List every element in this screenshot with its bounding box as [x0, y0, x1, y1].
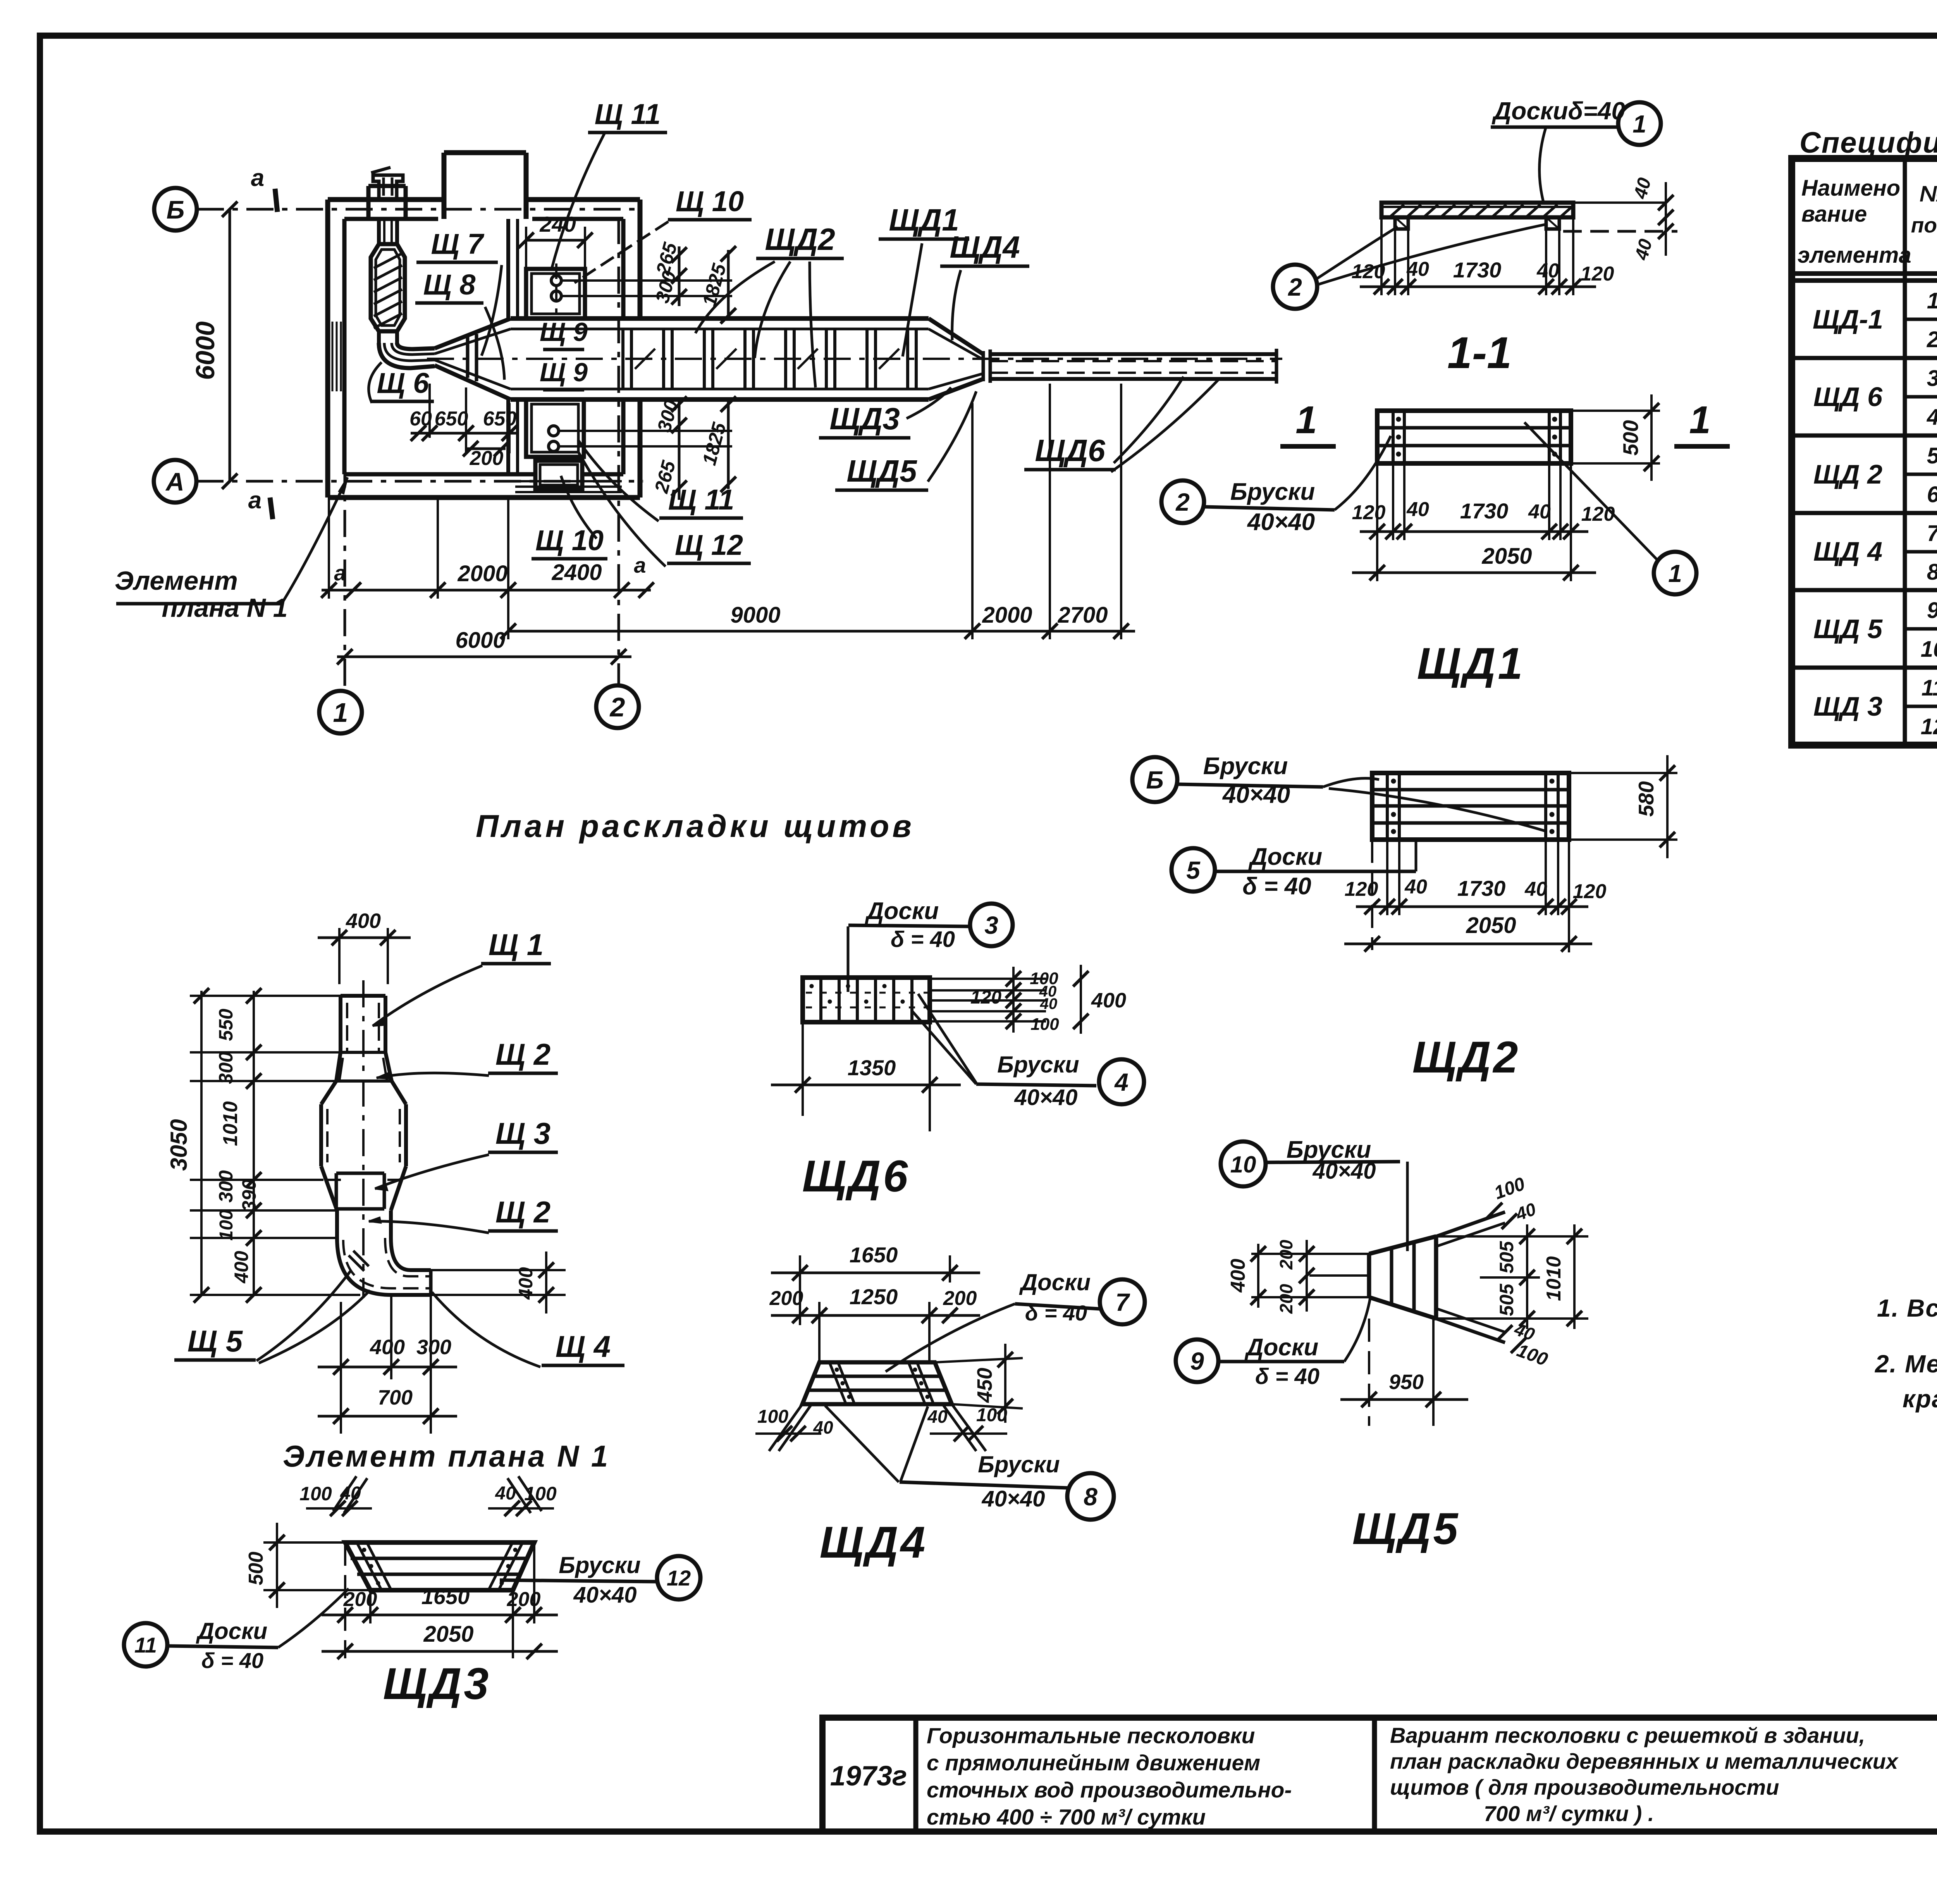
svg-text:450: 450	[973, 1368, 996, 1403]
svg-text:950: 950	[1389, 1370, 1424, 1394]
bottle: right dim 400 at outlet	[431, 1269, 566, 1271]
svg-text:ЩД-1: ЩД-1	[1813, 304, 1883, 334]
shd5: funnel body	[1367, 1254, 1371, 1297]
svg-text:6000: 6000	[191, 321, 220, 380]
plan: building top wall	[328, 197, 444, 202]
svg-text:9: 9	[1927, 598, 1937, 623]
svg-text:40×40: 40×40	[982, 1486, 1045, 1511]
svg-text:390: 390	[238, 1179, 260, 1212]
bottle: center line	[362, 980, 365, 1298]
plan: channel diagonal marks	[635, 349, 655, 369]
sec1-1: left post	[1395, 217, 1408, 229]
svg-text:2000: 2000	[457, 561, 507, 586]
svg-text:3: 3	[984, 911, 998, 939]
svg-text:Щ 9: Щ 9	[540, 317, 588, 347]
plan: vertical dim 6000	[229, 209, 231, 481]
svg-text:40: 40	[1536, 260, 1559, 282]
svg-text:40×40: 40×40	[1247, 509, 1315, 535]
svg-text:δ = 40: δ = 40	[1025, 1301, 1087, 1325]
svg-text:40: 40	[813, 1417, 833, 1437]
svg-text:2050: 2050	[1466, 913, 1516, 938]
svg-text:4: 4	[1114, 1068, 1128, 1096]
svg-text:100: 100	[299, 1483, 332, 1505]
svg-text:2: 2	[1175, 488, 1190, 516]
sec1-1: dashed level line	[1563, 230, 1677, 233]
svg-text:а: а	[248, 487, 261, 514]
shd4: leader to bubble 7	[886, 1304, 1015, 1372]
svg-text:Бруски: Бруски	[1203, 753, 1288, 780]
svg-text:Элемент: Элемент	[115, 566, 238, 596]
shd4: leader to bubble 8	[825, 1406, 899, 1482]
svg-text:700: 700	[378, 1386, 413, 1409]
plan: dims 60 650 650	[411, 432, 519, 435]
svg-text:1: 1	[333, 697, 348, 728]
shd1: dim line 2050	[1352, 572, 1596, 574]
svg-text:300: 300	[215, 1052, 237, 1084]
plan: left wall window hatch	[332, 322, 334, 391]
svg-text:400: 400	[231, 1251, 252, 1284]
svg-text:11: 11	[134, 1633, 157, 1657]
svg-text:1650: 1650	[421, 1584, 470, 1609]
svg-text:ЩД4: ЩД4	[820, 1518, 928, 1567]
plan: building right wall	[638, 200, 643, 318]
plan: axis 2 vertical	[618, 217, 620, 685]
svg-text:300: 300	[215, 1170, 237, 1203]
plan: dims 265/300 upper	[678, 246, 681, 306]
svg-text:1: 1	[1295, 398, 1317, 442]
sec1-1: plank bar with hatch	[1381, 203, 1573, 217]
plan: narrow outlet channel	[990, 352, 1276, 356]
svg-text:Бруски: Бруски	[997, 1052, 1079, 1078]
svg-text:1: 1	[1689, 398, 1711, 442]
plan: dim 1825 lower	[727, 399, 730, 489]
svg-text:650: 650	[435, 408, 468, 430]
svg-text:100: 100	[1030, 1015, 1059, 1034]
bottle: inner shield Щ3 rect	[336, 1172, 384, 1175]
svg-text:Щ 8: Щ 8	[423, 269, 476, 301]
svg-text:а: а	[634, 553, 646, 577]
svg-text:с прямолинейным движением: с прямолинейным движением	[927, 1751, 1260, 1775]
svg-text:ЩД3: ЩД3	[829, 401, 900, 436]
elem1: dim 2050	[322, 1650, 558, 1653]
svg-text:505: 505	[1496, 1241, 1517, 1274]
svg-text:Щ 2: Щ 2	[495, 1037, 550, 1071]
svg-text:стью 400 ÷ 700 м³/ сутки: стью 400 ÷ 700 м³/ сутки	[927, 1805, 1206, 1830]
svg-text:240: 240	[539, 212, 576, 236]
elem1: dims 200/1650/200	[322, 1614, 558, 1617]
plan: right taper	[929, 318, 983, 354]
svg-text:400: 400	[1227, 1259, 1249, 1293]
svg-text:Доски: Доски	[196, 1618, 267, 1644]
spec table row lines	[1792, 356, 1937, 360]
svg-text:Щ 11: Щ 11	[668, 484, 735, 516]
plan: channel rungs	[621, 329, 624, 389]
shd4: bottom-right dims 40/100	[943, 1404, 976, 1451]
shd4: dim 450	[935, 1358, 1023, 1362]
plan: main channel walls	[511, 316, 929, 321]
shd6: leader to bubble 4	[918, 994, 976, 1083]
svg-text:120: 120	[970, 987, 1001, 1008]
svg-text:ЩД1: ЩД1	[1417, 639, 1525, 689]
svg-text:Щ 10: Щ 10	[676, 185, 744, 217]
svg-text:1250: 1250	[850, 1284, 898, 1309]
svg-text:1: 1	[1927, 288, 1937, 313]
plan: lower shield box	[526, 399, 584, 457]
svg-text:9000: 9000	[730, 603, 780, 628]
svg-text:120: 120	[1352, 501, 1386, 524]
title block outer	[822, 1718, 1937, 1832]
svg-text:300: 300	[416, 1336, 451, 1359]
svg-text:плана N 1: плана N 1	[162, 593, 287, 623]
svg-text:2050: 2050	[1481, 544, 1532, 569]
svg-text:Б: Б	[1146, 766, 1163, 794]
svg-text:500: 500	[245, 1552, 267, 1586]
svg-text:Доски: Доски	[1244, 1334, 1318, 1361]
shd4: bottom-left dims 100/40	[769, 1404, 802, 1451]
svg-text:6: 6	[1927, 482, 1937, 507]
svg-text:Доски: Доски	[865, 898, 939, 924]
plan: dims 300/265 lower	[678, 399, 681, 500]
svg-text:2: 2	[1288, 273, 1302, 301]
svg-text:8: 8	[1084, 1483, 1098, 1511]
svg-text:Б: Б	[167, 195, 185, 224]
svg-text:Горизонтальные песколовки: Горизонтальные песколовки	[927, 1723, 1255, 1748]
svg-text:поз.: поз.	[1911, 213, 1937, 237]
svg-text:7: 7	[1927, 521, 1937, 546]
sec1-1: right post	[1546, 217, 1559, 229]
plan: grille unit octagon	[371, 244, 405, 331]
bottle: bottom dims 400 300 700	[340, 1302, 342, 1434]
svg-text:2400: 2400	[551, 560, 602, 585]
svg-text:1730: 1730	[1453, 258, 1502, 282]
svg-text:40: 40	[1404, 876, 1427, 898]
shd4: dim 1650	[771, 1272, 980, 1274]
svg-text:1: 1	[1633, 110, 1646, 138]
shd5: long planks	[1436, 1212, 1505, 1236]
svg-text:120: 120	[1573, 880, 1607, 903]
svg-text:1730: 1730	[1457, 876, 1506, 900]
svg-text:200: 200	[470, 447, 504, 470]
svg-text:550: 550	[215, 1009, 237, 1041]
shd1: dim 500	[1571, 410, 1660, 412]
svg-text:400: 400	[346, 909, 381, 933]
svg-text:2000: 2000	[982, 603, 1032, 628]
svg-text:Бруски: Бруски	[559, 1552, 640, 1578]
shd6: right extension lines	[930, 978, 1046, 980]
svg-text:2700: 2700	[1057, 603, 1108, 628]
svg-text:δ = 40: δ = 40	[1242, 873, 1311, 900]
svg-text:Щ 1: Щ 1	[489, 928, 544, 962]
svg-text:№: №	[1920, 181, 1937, 207]
svg-text:Щ 7: Щ 7	[431, 228, 485, 260]
svg-text:5: 5	[1186, 856, 1201, 884]
bottle: dim 400 top	[338, 928, 341, 984]
svg-text:ЩД 5: ЩД 5	[1813, 614, 1883, 644]
shd5: dim 950	[1368, 1319, 1370, 1426]
plan: upper shield box	[526, 269, 585, 318]
svg-text:ЩД5: ЩД5	[1352, 1504, 1460, 1554]
svg-text:3050: 3050	[166, 1119, 192, 1171]
svg-text:Щ 2: Щ 2	[495, 1195, 550, 1229]
svg-text:а: а	[334, 561, 346, 585]
svg-text:Щ 5: Щ 5	[188, 1324, 243, 1358]
svg-text:План раскладки щитов: План раскладки щитов	[476, 809, 915, 844]
svg-text:2: 2	[1927, 327, 1937, 352]
shd4: trapezoid plank assembly	[802, 1362, 952, 1404]
svg-text:Спецификация лесоматериалов на: Спецификация лесоматериалов на 1 песколо…	[1799, 126, 1937, 159]
svg-text:Щ 12: Щ 12	[675, 529, 743, 561]
svg-text:Бруски: Бруски	[978, 1451, 1060, 1477]
svg-text:Элемент плана N 1: Элемент плана N 1	[283, 1439, 610, 1473]
svg-text:200: 200	[1276, 1239, 1296, 1270]
plan: bottom dim row 3 (6000)	[337, 656, 631, 658]
svg-text:400: 400	[515, 1267, 537, 1300]
svg-text:Бруски: Бруски	[1230, 479, 1315, 505]
svg-text:А: А	[165, 467, 184, 496]
svg-text:Щ 4: Щ 4	[556, 1329, 611, 1363]
bottle: left dims column	[200, 991, 203, 1295]
svg-text:10: 10	[1230, 1152, 1256, 1178]
svg-text:δ = 40: δ = 40	[201, 1648, 263, 1673]
plan: pipe below grille	[377, 331, 381, 343]
shd6: dim 1350	[802, 1022, 804, 1116]
svg-text:краской за 2 раза.: краской за 2 раза.	[1903, 1385, 1937, 1413]
svg-text:вание: вание	[1801, 201, 1867, 227]
svg-text:ЩД 3: ЩД 3	[1813, 691, 1882, 721]
svg-text:100: 100	[976, 1405, 1007, 1425]
spec table outer box	[1792, 158, 1937, 745]
bottle: body	[319, 1104, 323, 1166]
svg-text:Щ 10: Щ 10	[535, 524, 604, 556]
svg-text:ЩД 6: ЩД 6	[1813, 382, 1883, 412]
svg-text:400: 400	[370, 1336, 405, 1359]
plan: channel center line	[427, 358, 1282, 360]
sec1-1: right 40 dims	[1573, 201, 1666, 204]
svg-text:2050: 2050	[423, 1622, 473, 1647]
plan: axis circle 2	[596, 685, 639, 728]
svg-text:9: 9	[1190, 1347, 1204, 1375]
plan: elbow to channel	[379, 343, 435, 368]
svg-text:700 м³/ сутки ) .: 700 м³/ сутки ) .	[1484, 1801, 1654, 1826]
bottle: top tube	[341, 994, 385, 998]
svg-text:40×40: 40×40	[1014, 1085, 1078, 1110]
svg-text:4: 4	[1927, 405, 1937, 430]
svg-text:ЩД2: ЩД2	[765, 222, 835, 257]
svg-text:2. Металлические щиты окраси: 2. Металлические щиты окрасить масляной	[1875, 1350, 1937, 1378]
shd5: left dims 400/200/200	[1251, 1253, 1369, 1255]
svg-text:500: 500	[1619, 420, 1643, 456]
svg-text:3: 3	[1927, 366, 1937, 391]
svg-text:Щ 3: Щ 3	[495, 1116, 550, 1150]
plan: interior wall	[506, 219, 510, 318]
svg-text:580: 580	[1634, 781, 1658, 817]
svg-text:40: 40	[1406, 258, 1429, 281]
svg-text:5: 5	[1927, 443, 1937, 468]
shd2: bubble 5 label Доски	[1171, 848, 1215, 892]
svg-text:Щ 11: Щ 11	[595, 98, 661, 130]
svg-text:650: 650	[483, 408, 517, 430]
svg-text:40×40: 40×40	[573, 1582, 637, 1608]
svg-text:сточных вод производительно-: сточных вод производительно-	[927, 1778, 1292, 1802]
svg-text:2: 2	[609, 692, 625, 722]
plan: axis line Б	[197, 208, 643, 211]
svg-text:40: 40	[1040, 995, 1058, 1012]
shd2: dim 580	[1569, 772, 1677, 774]
svg-text:200: 200	[943, 1287, 977, 1310]
svg-text:Щ 9: Щ 9	[540, 358, 588, 387]
plan: porch structure	[366, 186, 371, 221]
bottle: upper taper Щ2	[336, 1052, 341, 1081]
shd5: right dims 505/505/1010	[1436, 1235, 1588, 1238]
bottle: left witness lines	[190, 995, 341, 997]
plan: bottom wall window hatch	[515, 480, 622, 482]
svg-text:ЩД6: ЩД6	[802, 1152, 910, 1201]
svg-text:Доски: Доски	[1248, 844, 1322, 870]
svg-text:200: 200	[507, 1588, 541, 1611]
svg-text:Доскиδ=40: Доскиδ=40	[1491, 97, 1625, 125]
svg-text:12: 12	[667, 1566, 691, 1590]
plan: inlet taper	[435, 318, 511, 348]
svg-text:Наимено: Наимено	[1801, 176, 1900, 201]
svg-text:120: 120	[1581, 263, 1614, 285]
shd2: bubble Б label Бруски	[1132, 757, 1177, 802]
plan: building left wall	[325, 200, 330, 498]
svg-text:план раскладки деревянных и: план раскладки деревянных и металлически…	[1390, 1749, 1899, 1773]
svg-text:ЩД1: ЩД1	[889, 203, 959, 237]
svg-text:100: 100	[216, 1210, 237, 1241]
sec1-1: bottom dim line	[1360, 286, 1596, 288]
svg-text:200: 200	[769, 1287, 803, 1310]
svg-text:40: 40	[1406, 498, 1429, 521]
svg-text:1010: 1010	[1543, 1256, 1565, 1301]
svg-text:щитов ( для производит: щитов ( для производительности	[1390, 1775, 1779, 1799]
plan: box leader lines	[563, 279, 732, 282]
shd2: dim 2050	[1344, 943, 1592, 945]
svg-text:Щ 6: Щ 6	[377, 367, 430, 399]
shd5: bubble 9 label Доски	[1176, 1339, 1218, 1382]
svg-text:1973г: 1973г	[830, 1761, 907, 1792]
svg-text:6000: 6000	[455, 628, 505, 653]
plan: bottom dim row 1 (a 2000 2400 a)	[322, 589, 651, 592]
svg-text:40: 40	[927, 1406, 948, 1427]
svg-text:1: 1	[1668, 559, 1682, 587]
shd6: dim 400	[1080, 965, 1082, 1034]
svg-text:элемента: элемента	[1798, 243, 1911, 268]
plan: dim 240	[526, 239, 585, 242]
svg-text:ЩД5: ЩД5	[846, 454, 917, 488]
elem1: trapezoid ЩД3	[345, 1542, 534, 1590]
svg-text:7: 7	[1115, 1288, 1130, 1316]
plan: bottom dim row 2 (9000 2000 2700)	[508, 630, 1135, 633]
shd1: bubble 2 label Бруски 40x40	[1161, 480, 1204, 523]
shd4: dims 200/1250/200	[771, 1314, 980, 1317]
svg-text:505: 505	[1496, 1283, 1517, 1316]
svg-text:12: 12	[1921, 714, 1937, 739]
shd2: dim line 120/40/1730/40/120	[1356, 906, 1588, 908]
plan: bottom small box	[535, 461, 582, 489]
bottle: lower taper	[321, 1166, 337, 1210]
svg-text:ЩД3: ЩД3	[383, 1659, 491, 1709]
svg-text:200: 200	[1276, 1284, 1296, 1314]
svg-text:δ = 40: δ = 40	[891, 927, 955, 952]
svg-text:Доски: Доски	[1019, 1269, 1091, 1295]
shd1: bubble 1 leader	[1654, 552, 1696, 594]
elem1: bubble 11 label Доски	[124, 1623, 167, 1666]
svg-text:1730: 1730	[1460, 499, 1509, 523]
svg-text:ЩД 2: ЩД 2	[1813, 459, 1882, 489]
svg-text:1650: 1650	[850, 1243, 898, 1267]
plan: inlet pipe from top wall	[377, 219, 381, 244]
svg-text:δ = 40: δ = 40	[1255, 1364, 1319, 1389]
shd2: plank assembly	[1372, 773, 1569, 840]
plan: axis 1 vertical	[344, 411, 346, 691]
shd6: right small dims	[1012, 967, 1015, 1033]
shd5: bubble 10 label Бруски	[1221, 1141, 1266, 1186]
plan: axis circle А	[154, 460, 196, 503]
spec table column lines	[1903, 158, 1907, 745]
svg-text:1-1: 1-1	[1447, 328, 1512, 378]
svg-text:1. Все деревянные элементы: 1. Все деревянные элементы антисептирова…	[1877, 1294, 1937, 1322]
svg-text:Вариант песколовки с решетко: Вариант песколовки с решеткой в здании,	[1390, 1723, 1865, 1747]
svg-text:ЩД2: ЩД2	[1412, 1033, 1521, 1082]
svg-text:1010: 1010	[219, 1101, 242, 1146]
svg-text:40: 40	[1524, 878, 1547, 900]
svg-text:200: 200	[343, 1588, 377, 1611]
bottle: neck	[335, 1210, 339, 1238]
shd1: plank assembly	[1377, 411, 1571, 463]
plan: dim 1825 upper	[727, 250, 730, 318]
shd1: dim line 120/40/1730/40/120	[1360, 530, 1588, 533]
svg-text:ЩД 4: ЩД 4	[1813, 536, 1882, 566]
sec1-1: bubble 1	[1618, 102, 1661, 145]
shd6: plank row (end view)	[803, 978, 930, 1022]
bottle: joint marks in elbow	[349, 1255, 364, 1271]
svg-text:а: а	[251, 165, 264, 191]
svg-text:1350: 1350	[848, 1055, 896, 1080]
svg-text:8: 8	[1927, 559, 1937, 585]
svg-text:10: 10	[1921, 637, 1937, 662]
sec1-1: bubble 2 with leaders	[1273, 265, 1317, 309]
svg-text:400: 400	[1091, 989, 1126, 1012]
svg-text:ЩД4: ЩД4	[950, 230, 1020, 264]
plan: chimney box	[442, 153, 447, 219]
elem1: dim 500	[263, 1541, 345, 1544]
bottle: elbow to outlet	[337, 1238, 431, 1295]
title block verticals	[913, 1718, 919, 1832]
plan: axis line А	[196, 480, 643, 483]
svg-text:120: 120	[1581, 503, 1615, 525]
plan: axis circle Б	[154, 188, 197, 231]
svg-text:11: 11	[1922, 675, 1937, 701]
plan: building bottom wall	[328, 495, 640, 500]
svg-text:100: 100	[757, 1406, 788, 1427]
svg-text:ЩД6: ЩД6	[1035, 433, 1105, 468]
svg-text:40: 40	[1528, 501, 1551, 523]
plan: axis circle 1	[319, 691, 362, 733]
